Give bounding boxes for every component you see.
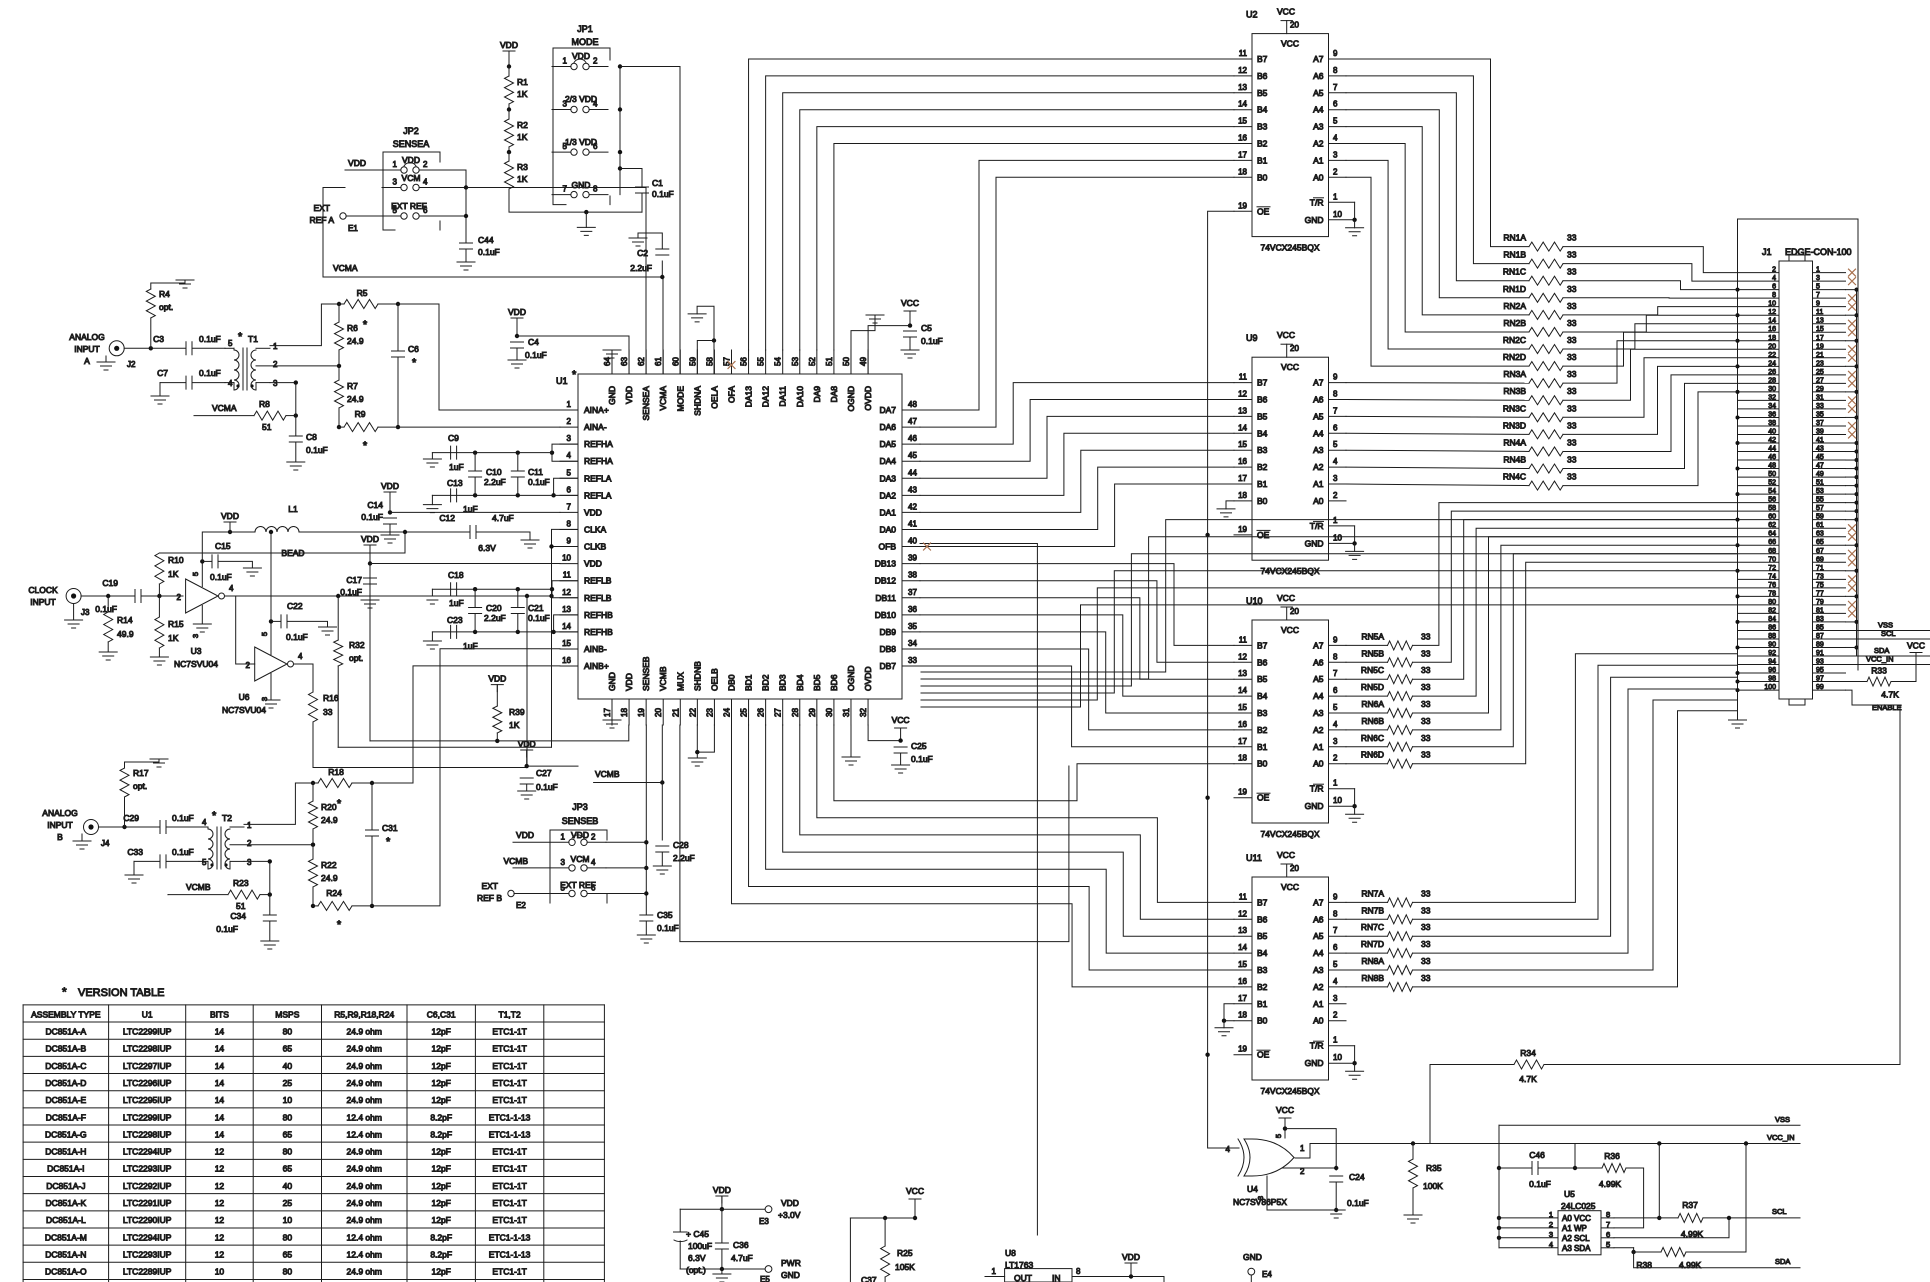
svg-text:7: 7	[1333, 406, 1338, 415]
U9 pin 20 VCC	[1286, 344, 1288, 357]
svg-text:50: 50	[842, 357, 851, 366]
resistor RN1C 33	[1529, 276, 1563, 285]
wire U9 A7 to RN3A	[1346, 382, 1529, 385]
U3 pin5 VCC	[201, 561, 203, 586]
svg-text:C36: C36	[733, 1240, 749, 1250]
svg-text:9: 9	[1333, 892, 1338, 901]
svg-text:24LC025: 24LC025	[1561, 1201, 1596, 1211]
wire RN7B to J1	[1413, 665, 1738, 919]
svg-text:A1 WP: A1 WP	[1562, 1224, 1587, 1233]
J1 pin 35	[1813, 416, 1846, 418]
svg-text:0.1uF: 0.1uF	[528, 477, 550, 487]
svg-text:33: 33	[1567, 403, 1577, 413]
wire T2 pin1 to R18	[244, 783, 313, 824]
svg-text:R5,R9,R18,R24: R5,R9,R18,R24	[334, 1009, 394, 1019]
svg-text:92: 92	[1768, 650, 1776, 657]
svg-text:7: 7	[567, 502, 572, 511]
svg-text:1K: 1K	[509, 720, 520, 730]
svg-text:3: 3	[1549, 1230, 1553, 1239]
svg-text:1K: 1K	[517, 132, 528, 142]
svg-text:CLKB: CLKB	[584, 542, 607, 552]
svg-text:B0: B0	[1257, 496, 1268, 506]
svg-text:1: 1	[393, 160, 398, 169]
resistor RN7B 33	[1346, 918, 1388, 920]
svg-text:VCC: VCC	[1276, 1105, 1294, 1115]
svg-text:9: 9	[1333, 49, 1338, 58]
svg-text:DB13: DB13	[875, 559, 897, 569]
buffer U10 74VCX245BQX	[1252, 620, 1329, 823]
svg-text:B1: B1	[1257, 155, 1268, 165]
svg-text:94: 94	[1768, 659, 1776, 666]
J1 pin 48	[1738, 468, 1780, 470]
wire VCC bus right of J1	[1856, 288, 1858, 656]
svg-text:RN8A: RN8A	[1361, 956, 1384, 966]
svg-text:24.9 ohm: 24.9 ohm	[347, 1198, 382, 1208]
svg-text:1: 1	[1333, 192, 1338, 201]
svg-text:74: 74	[1768, 573, 1776, 580]
svg-text:12: 12	[562, 588, 571, 597]
wire RN4C to J1 pin 30	[1563, 392, 1738, 486]
svg-text:ETC1-1-13: ETC1-1-13	[489, 1112, 531, 1122]
svg-text:7: 7	[1333, 926, 1338, 935]
U11 pin 6 A4	[1329, 952, 1347, 954]
ground	[1354, 806, 1356, 814]
U9 pin 2 A0	[1329, 500, 1347, 502]
svg-text:9: 9	[1333, 635, 1338, 644]
wire to U6 input	[236, 596, 255, 664]
svg-text:R8: R8	[259, 399, 270, 409]
svg-text:24.9: 24.9	[321, 873, 338, 883]
svg-text:RN2A: RN2A	[1503, 301, 1526, 311]
U1 pin 64 GND	[611, 350, 613, 374]
resistor RN6D 33	[1346, 763, 1388, 765]
U10 pin 12 B6	[1234, 661, 1252, 663]
svg-text:10: 10	[1333, 1053, 1342, 1062]
svg-text:45: 45	[908, 451, 917, 460]
svg-text:2: 2	[1772, 267, 1776, 274]
wire U1 pin 37 to U10 B5	[920, 598, 1234, 679]
svg-text:E3: E3	[759, 1217, 769, 1226]
svg-text:1: 1	[1300, 1144, 1305, 1153]
wire U10 OE tap	[1205, 796, 1209, 800]
svg-text:R17: R17	[133, 768, 149, 778]
svg-text:20: 20	[1290, 607, 1299, 616]
svg-text:47: 47	[908, 417, 917, 426]
capacitor C31	[371, 783, 373, 830]
svg-text:5: 5	[191, 572, 200, 576]
svg-text:E5: E5	[760, 1275, 770, 1282]
ground	[1354, 220, 1356, 228]
svg-text:40: 40	[908, 537, 917, 546]
U9 pin 1 T/R	[1329, 525, 1355, 527]
svg-text:B1: B1	[1257, 999, 1268, 1009]
wire T2 pin3	[244, 860, 270, 862]
capacitor C1 0.1uF	[620, 169, 642, 188]
svg-text:U8: U8	[1005, 1248, 1016, 1258]
svg-text:BD4: BD4	[795, 674, 805, 691]
svg-text:25: 25	[283, 1078, 293, 1088]
svg-text:33: 33	[1567, 420, 1577, 430]
U1 pin 29 BD5	[816, 699, 818, 725]
svg-text:12: 12	[1238, 909, 1247, 918]
U1 pin 27 BD3	[782, 699, 784, 725]
svg-text:EXT: EXT	[481, 881, 498, 891]
svg-text:20: 20	[1768, 343, 1776, 350]
svg-text:33: 33	[1567, 369, 1577, 379]
svg-text:C13: C13	[447, 478, 463, 488]
svg-text:88: 88	[1768, 633, 1776, 640]
U1 pin 38 DB12	[902, 580, 920, 582]
U11 pin 4 A2	[1329, 986, 1347, 988]
capacitor C24 0.1uF	[1330, 1176, 1343, 1182]
resistor RN2D 33	[1529, 362, 1563, 371]
svg-text:2: 2	[423, 160, 428, 169]
svg-text:L1: L1	[288, 504, 298, 514]
svg-text:A0: A0	[1313, 759, 1324, 769]
svg-text:85: 85	[1816, 624, 1824, 631]
svg-text:A: A	[84, 356, 90, 366]
U1 pin 50 OGND	[850, 350, 852, 374]
svg-text:33: 33	[1421, 733, 1431, 743]
U1 pin 61 VCMA	[662, 350, 664, 374]
wire xor input 2	[1282, 1167, 1336, 1169]
svg-text:RN1A: RN1A	[1503, 233, 1526, 243]
J1 pin 29	[1813, 391, 1846, 393]
svg-text:2: 2	[1549, 1220, 1553, 1229]
wire R38 to VCC_IN	[1686, 1144, 1746, 1253]
svg-text:B6: B6	[1257, 71, 1268, 81]
svg-text:R18: R18	[328, 767, 344, 777]
svg-text:8: 8	[1333, 652, 1338, 661]
svg-text:33: 33	[1421, 956, 1431, 966]
svg-text:39: 39	[908, 554, 917, 563]
svg-text:C6,C31: C6,C31	[427, 1009, 456, 1019]
svg-text:4: 4	[229, 584, 234, 593]
svg-text:RN3B: RN3B	[1503, 386, 1526, 396]
svg-text:*: *	[363, 319, 368, 331]
svg-text:+3.0V: +3.0V	[778, 1210, 801, 1220]
wire RN6A to J1 pin 64	[1413, 537, 1738, 713]
svg-text:6.3V: 6.3V	[478, 543, 496, 553]
svg-text:6: 6	[591, 884, 596, 893]
J1 pin 19	[1813, 348, 1846, 350]
svg-text:22: 22	[1768, 352, 1776, 359]
svg-text:VDD: VDD	[1122, 1252, 1140, 1262]
svg-text:35: 35	[1816, 411, 1824, 418]
U1 pin 41 DA0	[902, 528, 920, 530]
svg-text:VCMA: VCMA	[212, 403, 237, 413]
svg-text:R36: R36	[1604, 1151, 1620, 1161]
U1 pin 15 AINB-	[560, 648, 578, 650]
resistor R22 24.9	[312, 845, 314, 859]
capacitor C18 1uF	[451, 583, 457, 596]
svg-text:DB12: DB12	[875, 576, 897, 586]
J1 pin 75	[1813, 587, 1846, 589]
svg-text:61: 61	[654, 357, 663, 366]
svg-text:1: 1	[1333, 1036, 1338, 1045]
svg-text:VDD: VDD	[488, 674, 506, 684]
svg-text:VCC: VCC	[1281, 39, 1299, 49]
resistor R35 100K	[1411, 1141, 1415, 1145]
svg-text:97: 97	[1816, 676, 1824, 683]
svg-text:OE: OE	[1257, 793, 1270, 803]
svg-text:53: 53	[1816, 488, 1824, 495]
U2 pin 2 A0	[1329, 176, 1347, 178]
svg-text:40: 40	[283, 1061, 293, 1071]
J1 pin 43	[1813, 451, 1846, 453]
svg-text:48: 48	[908, 400, 917, 409]
J1 pin 26	[1738, 374, 1780, 376]
J1 pin 27	[1813, 382, 1846, 384]
svg-text:VCC: VCC	[892, 715, 910, 725]
J1 pin 16	[1738, 331, 1780, 333]
svg-text:4: 4	[423, 178, 428, 187]
wire U1 pin 43 to U9 B4	[920, 433, 1234, 495]
J1 pin 5	[1813, 289, 1846, 291]
U2 pin 1 T/R	[1329, 201, 1355, 203]
wire RN6D to J1 pin 70	[1413, 562, 1738, 763]
svg-text:A1: A1	[1313, 479, 1324, 489]
svg-text:DC851A-O: DC851A-O	[45, 1267, 87, 1277]
svg-text:71: 71	[1816, 565, 1824, 572]
svg-text:14: 14	[1238, 943, 1247, 952]
U1 pin 42 DA1	[902, 511, 920, 513]
svg-text:RN4B: RN4B	[1503, 455, 1526, 465]
svg-text:BD5: BD5	[812, 674, 822, 691]
wire U2 A5 to RN1C	[1346, 93, 1529, 281]
svg-text:RN3A: RN3A	[1503, 369, 1526, 379]
svg-text:A0: A0	[1313, 496, 1324, 506]
svg-text:LTC2294IUP: LTC2294IUP	[123, 1232, 172, 1242]
J1 pin 7	[1813, 297, 1846, 299]
svg-text:RN1C: RN1C	[1503, 267, 1526, 277]
svg-text:1: 1	[563, 57, 568, 66]
svg-text:LTC2298IUP: LTC2298IUP	[123, 1044, 172, 1054]
J1 pin 13	[1813, 323, 1846, 325]
svg-text:0.1uF: 0.1uF	[536, 782, 558, 792]
J1 pin 90	[1738, 646, 1780, 648]
ground	[431, 589, 433, 596]
J1 pin 2	[1738, 272, 1780, 274]
svg-text:U9: U9	[1246, 333, 1258, 343]
J1 pin 98	[1738, 681, 1780, 683]
svg-text:33: 33	[1421, 665, 1431, 675]
svg-text:B7: B7	[1257, 54, 1268, 64]
U10 pin 1 T/R	[1329, 788, 1355, 790]
svg-text:6: 6	[567, 485, 572, 494]
svg-text:ANALOG: ANALOG	[42, 808, 77, 818]
svg-text:12: 12	[215, 1215, 225, 1225]
svg-text:15: 15	[562, 639, 571, 648]
wire U1 pin 26 to U11 B4	[766, 725, 1234, 953]
svg-text:*: *	[572, 369, 577, 381]
svg-text:9: 9	[1816, 301, 1820, 308]
OGND ground	[851, 315, 875, 374]
svg-text:17: 17	[603, 708, 612, 717]
svg-text:ETC1-1T: ETC1-1T	[492, 1095, 526, 1105]
svg-text:33: 33	[1816, 403, 1824, 410]
svg-text:11: 11	[1239, 49, 1248, 58]
svg-text:8.2pF: 8.2pF	[430, 1250, 452, 1260]
wire T1 pin2	[256, 365, 339, 367]
svg-text:R39: R39	[509, 707, 525, 717]
J1 pin 38	[1738, 425, 1780, 427]
wire U1 pin 45 to U9 B6	[920, 400, 1234, 462]
svg-text:17: 17	[1238, 150, 1247, 159]
svg-text:10: 10	[1768, 301, 1776, 308]
svg-text:33: 33	[1421, 699, 1431, 709]
capacitor C8 0.1uF	[295, 416, 297, 436]
U10 pin 11 B7	[1234, 644, 1252, 646]
U11 pin 15 B3	[1234, 969, 1252, 971]
U9 pin 8 A6	[1329, 399, 1347, 401]
svg-text:RN5A: RN5A	[1361, 631, 1384, 641]
svg-text:24: 24	[722, 708, 731, 717]
svg-text:T2: T2	[222, 813, 232, 823]
svg-text:33: 33	[1567, 301, 1577, 311]
resistor R2 1K	[508, 110, 510, 120]
svg-text:12: 12	[1238, 390, 1247, 399]
wire MUX	[680, 725, 1069, 942]
svg-text:35: 35	[908, 622, 917, 631]
svg-text:DA3: DA3	[879, 473, 896, 483]
svg-text:52: 52	[808, 357, 817, 366]
J1 pin 56	[1738, 502, 1780, 504]
svg-text:A2: A2	[1313, 462, 1324, 472]
U1 pin 2 AINA-	[560, 426, 578, 428]
svg-text:8.2pF: 8.2pF	[430, 1129, 452, 1139]
resistor R37 4.99K	[1678, 1213, 1703, 1222]
svg-text:VDD: VDD	[381, 481, 399, 491]
U10 pin 16 B2	[1234, 729, 1252, 731]
svg-text:17: 17	[1816, 335, 1824, 342]
svg-text:BITS: BITS	[210, 1009, 229, 1019]
svg-text:87: 87	[1816, 633, 1824, 640]
wire R32 bottom	[338, 746, 551, 748]
wire SENSEA to U1	[466, 188, 646, 375]
wire DA9 to U2 B3	[817, 127, 1234, 350]
wire center tap B	[269, 861, 271, 894]
svg-text:LTC2291IUP: LTC2291IUP	[123, 1198, 172, 1208]
wire J3 to C19	[81, 595, 135, 597]
J1 pin 72	[1738, 570, 1780, 572]
svg-text:42: 42	[1768, 437, 1776, 444]
svg-text:RN3D: RN3D	[1503, 420, 1526, 430]
U11 pin 11 B7	[1234, 901, 1252, 903]
wire REFLB rail	[432, 588, 552, 590]
svg-text:DC851A-K: DC851A-K	[46, 1198, 87, 1208]
svg-text:24.9: 24.9	[321, 815, 338, 825]
svg-text:R24: R24	[326, 888, 342, 898]
wire U2 A3 to RN2A	[1346, 127, 1529, 315]
J1 pin 71	[1813, 570, 1846, 572]
U1 pin 52 DA9	[816, 350, 818, 374]
svg-text:VCMB: VCMB	[658, 666, 668, 691]
capacitor C21 0.1uF	[517, 589, 519, 607]
svg-text:24.9 ohm: 24.9 ohm	[347, 1215, 382, 1225]
svg-text:BD3: BD3	[778, 674, 788, 691]
svg-text:6: 6	[423, 206, 428, 215]
svg-text:33: 33	[1567, 352, 1577, 362]
svg-text:RN2C: RN2C	[1503, 335, 1526, 345]
svg-text:44: 44	[908, 468, 917, 477]
svg-text:12.4 ohm: 12.4 ohm	[347, 1232, 382, 1242]
svg-text:0.1uF: 0.1uF	[478, 247, 500, 257]
svg-text:C35: C35	[657, 910, 673, 920]
svg-text:1: 1	[561, 832, 566, 841]
svg-text:0.1uF: 0.1uF	[340, 587, 362, 597]
svg-text:BD1: BD1	[744, 674, 754, 691]
svg-text:VCC: VCC	[1281, 625, 1299, 635]
svg-text:A3 SDA: A3 SDA	[1562, 1244, 1591, 1253]
U1 pin 21 MUX	[679, 699, 681, 725]
svg-text:REFHB: REFHB	[584, 627, 613, 637]
svg-text:R37: R37	[1682, 1200, 1698, 1210]
wire U2 A6 to RN1B	[1346, 76, 1529, 264]
svg-text:OFA: OFA	[726, 386, 736, 403]
svg-text:A4: A4	[1313, 691, 1324, 701]
svg-text:15: 15	[1238, 960, 1247, 969]
svg-text:33: 33	[1567, 250, 1577, 260]
svg-text:VCC: VCC	[1281, 882, 1299, 892]
svg-text:5: 5	[1333, 960, 1338, 969]
resistor R36 4.99K	[1575, 1167, 1602, 1169]
svg-text:B4: B4	[1257, 948, 1268, 958]
svg-text:33: 33	[1567, 318, 1577, 328]
svg-text:DC851A-A: DC851A-A	[46, 1026, 87, 1036]
svg-text:LTC2290IUP: LTC2290IUP	[123, 1215, 172, 1225]
svg-text:79: 79	[1816, 599, 1824, 606]
svg-text:SENSEA: SENSEA	[641, 386, 651, 421]
wire U2 A1 to RN2C	[1346, 160, 1529, 349]
U10 pin 9 A7	[1329, 644, 1347, 646]
U9 pin 15 B3	[1234, 449, 1252, 451]
svg-text:VCC: VCC	[1277, 330, 1295, 340]
svg-text:38: 38	[1768, 420, 1776, 427]
svg-text:DC851A-I: DC851A-I	[47, 1164, 84, 1174]
svg-text:R38: R38	[1636, 1260, 1652, 1270]
wire bottom rail	[680, 1268, 765, 1270]
U1 pin 11 REFLB	[560, 580, 578, 582]
wire T/R to GND	[1354, 1046, 1356, 1064]
svg-text:RN1B: RN1B	[1503, 250, 1526, 260]
svg-text:17: 17	[1238, 737, 1247, 746]
svg-text:41: 41	[908, 519, 917, 528]
svg-text:26: 26	[757, 708, 766, 717]
svg-text:74VCX245BQX: 74VCX245BQX	[1260, 243, 1319, 253]
svg-text:7: 7	[1333, 669, 1338, 678]
U10 pin 20 VCC	[1286, 607, 1288, 620]
svg-text:55: 55	[1816, 497, 1824, 504]
svg-text:A1: A1	[1313, 155, 1324, 165]
svg-text:VDD: VDD	[508, 307, 526, 317]
J1 pin 92	[1738, 655, 1780, 657]
svg-text:0.1uF: 0.1uF	[199, 368, 221, 378]
wire control net to J1 pin 60	[921, 520, 1738, 672]
svg-text:80: 80	[283, 1267, 293, 1277]
svg-text:A5: A5	[1313, 88, 1324, 98]
svg-text:3: 3	[1333, 994, 1338, 1003]
svg-text:24.9 ohm: 24.9 ohm	[347, 1164, 382, 1174]
svg-text:59: 59	[1816, 514, 1824, 521]
svg-text:INPUT: INPUT	[47, 820, 73, 830]
U10 pin 14 B4	[1234, 695, 1252, 697]
U6 pin3 gnd	[270, 674, 272, 701]
wire U2 A7 to RN1A	[1346, 59, 1529, 247]
svg-text:21: 21	[671, 708, 680, 717]
svg-text:T/R: T/R	[1310, 1041, 1324, 1051]
svg-text:VCC: VCC	[1907, 641, 1925, 651]
